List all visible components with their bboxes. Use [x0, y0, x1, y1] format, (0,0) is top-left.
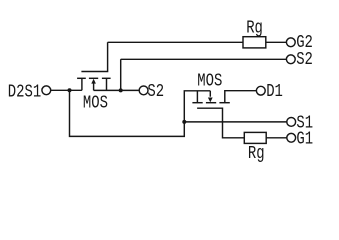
svg-text:Rg: Rg: [248, 143, 265, 163]
svg-text:G1: G1: [296, 129, 313, 149]
svg-text:D2S1: D2S1: [8, 82, 41, 102]
svg-text:S2: S2: [147, 81, 164, 101]
svg-text:D1: D1: [266, 81, 283, 101]
svg-text:Rg: Rg: [246, 18, 263, 38]
svg-text:MOS: MOS: [197, 71, 222, 91]
svg-text:S2: S2: [296, 50, 313, 70]
svg-text:MOS: MOS: [83, 93, 108, 113]
